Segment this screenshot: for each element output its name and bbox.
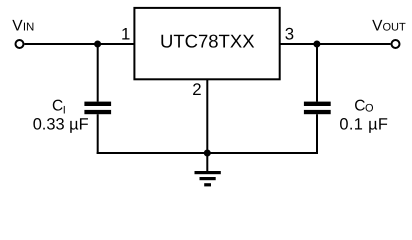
svg-text:3: 3: [285, 24, 294, 43]
svg-text:0.33 µF: 0.33 µF: [33, 116, 89, 134]
svg-text:UTC78TXX: UTC78TXX: [160, 31, 255, 52]
svg-text:2: 2: [192, 80, 201, 99]
svg-text:1: 1: [121, 24, 130, 43]
svg-text:0.1 µF: 0.1 µF: [339, 116, 388, 134]
